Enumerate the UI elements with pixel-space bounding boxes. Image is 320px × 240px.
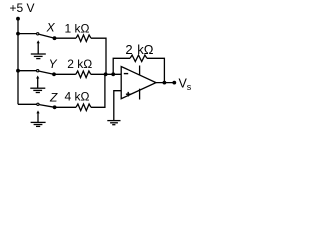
- wire resistor X to corner: [91, 38, 106, 74]
- ground under switch Z: [31, 110, 46, 126]
- svg-text:2: 2: [125, 42, 132, 57]
- switch Y pivot: [37, 70, 39, 72]
- wire switch X to resistor: [55, 37, 77, 39]
- svg-text:Y: Y: [49, 57, 58, 71]
- switch X lever: [39, 34, 54, 38]
- node feedback tap: [111, 72, 115, 76]
- resistor 4 kΩ: [76, 104, 91, 111]
- switch Z pivot: [37, 103, 39, 105]
- op-amp plus sign: [126, 92, 131, 97]
- svg-text:2 kΩ: 2 kΩ: [67, 57, 92, 71]
- wire op-amp output: [156, 82, 174, 84]
- switch Z lever: [39, 105, 54, 108]
- wire rail to switch X: [18, 33, 36, 35]
- wire noninverting input: [114, 91, 121, 121]
- wire resistor Z to corner up: [91, 74, 105, 107]
- resistor 1 kΩ: [76, 35, 91, 42]
- wire switch Z to resistor: [55, 106, 76, 108]
- wire resistor Y to op-amp input: [91, 73, 121, 75]
- ground under switch Y: [30, 76, 45, 93]
- wire feedback up leg: [113, 58, 130, 74]
- svg-text:1 kΩ: 1 kΩ: [65, 21, 90, 35]
- ground under switch X: [31, 40, 46, 58]
- op-amp bottom power stub: [139, 89, 141, 100]
- node rail junction row X: [16, 32, 20, 36]
- resistor 2 kΩ feedback: [130, 55, 147, 61]
- svg-text:kΩ: kΩ: [137, 42, 154, 57]
- wire +5V rail: [17, 19, 19, 105]
- node rail junction row Y: [16, 69, 20, 73]
- svg-text:Z: Z: [49, 91, 58, 105]
- svg-text:+5 V: +5 V: [10, 1, 35, 15]
- node output terminal: [172, 81, 176, 85]
- svg-text:s: s: [187, 82, 192, 92]
- op-amp top power stub: [139, 66, 141, 76]
- node feedback output junction: [163, 81, 167, 85]
- node switch Z contact: [53, 105, 57, 109]
- wire rail corner to switch Z: [18, 103, 37, 105]
- svg-text:4 kΩ: 4 kΩ: [65, 89, 90, 103]
- resistor 2 kΩ: [76, 71, 91, 78]
- node +5V terminal: [16, 17, 20, 21]
- wire rail to switch Y: [18, 70, 36, 72]
- wire switch Y to resistor: [54, 73, 76, 75]
- op-amp U1 triangle: [121, 67, 156, 99]
- svg-text:X: X: [46, 21, 56, 35]
- ground at op-amp + input: [107, 121, 120, 125]
- node switch Y contact: [52, 72, 56, 76]
- op-amp minus sign: [124, 73, 128, 75]
- wire feedback right leg: [147, 58, 164, 82]
- node switch X contact: [53, 36, 57, 40]
- switch X pivot: [37, 33, 39, 35]
- node summing junction: [104, 72, 108, 76]
- switch Y lever: [39, 71, 54, 74]
